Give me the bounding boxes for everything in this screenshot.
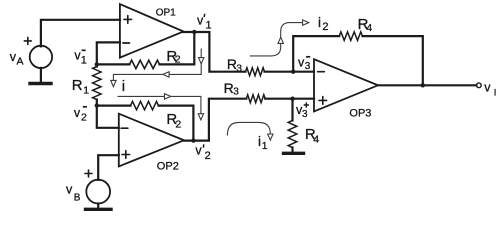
wire vB to OP2 non-inverting input <box>98 155 119 180</box>
svg-text:OP2: OP2 <box>157 161 179 173</box>
svg-text:R: R <box>72 77 83 94</box>
current annotation arrowhead (down at v'2) <box>198 114 203 120</box>
svg-text:2: 2 <box>205 150 211 162</box>
wire node v3- up to R4 feedback <box>293 36 339 72</box>
svg-text:OP1: OP1 <box>156 8 176 19</box>
wire OP3 output to terminal vI <box>378 84 476 86</box>
i2 annotation arrowhead (up) <box>278 37 283 43</box>
i2 annotation arrowhead (right) <box>303 20 309 25</box>
wire R4 to ground <box>291 148 293 152</box>
svg-text:2: 2 <box>322 21 328 33</box>
node v3+ junction dot <box>290 97 294 101</box>
svg-text:OP3: OP3 <box>349 107 371 119</box>
OP1 minus input sign <box>123 42 130 44</box>
OP2 plus input sign <box>122 151 130 159</box>
wire node v2- to OP2 inverting input <box>97 105 119 127</box>
svg-text:A: A <box>17 56 24 68</box>
svg-text:1: 1 <box>81 54 87 66</box>
ground (below vB) <box>86 208 112 211</box>
node v3- junction dot <box>291 70 295 74</box>
svg-text:v: v <box>74 106 81 120</box>
ground (below vA) <box>30 82 51 85</box>
svg-text:I: I <box>494 88 497 99</box>
current annotation: i2 S-curve <box>250 23 306 56</box>
current annotation arrowhead (right, above R2 bottom) <box>165 94 171 99</box>
wire node v1- to R2 (top) <box>97 63 130 65</box>
svg-text:v: v <box>484 81 491 95</box>
node v2- junction dot <box>95 103 99 107</box>
current annotation: i1 hook <box>227 122 270 135</box>
current annotation: line above R2 bottom toward v'2 <box>118 96 201 120</box>
svg-text:v: v <box>197 13 204 27</box>
wire OP1 inverting input to node v1- <box>97 42 120 63</box>
svg-text:B: B <box>74 192 81 203</box>
voltage source vA <box>30 46 52 68</box>
wire node v1- to R1 <box>96 64 98 66</box>
svg-text:i: i <box>258 134 261 149</box>
svg-text:1: 1 <box>83 84 89 96</box>
svg-text:4: 4 <box>313 134 319 146</box>
svg-text:v: v <box>195 144 202 158</box>
svg-text:2: 2 <box>81 111 87 123</box>
wire vB to ground <box>97 204 99 208</box>
OP1 plus input sign <box>124 16 132 24</box>
current annotation arrowhead (left, toward R1) <box>163 72 169 77</box>
resistor R4 (top feedback of OP3) <box>339 32 362 41</box>
wire R2 (top) to node v'1 <box>160 32 195 64</box>
svg-text:3: 3 <box>302 109 308 120</box>
plus sign of source vA <box>24 37 31 44</box>
op-amp OP1 <box>120 4 184 58</box>
svg-text:3: 3 <box>236 64 242 75</box>
svg-text:1: 1 <box>206 19 212 31</box>
resistor R2 (bottom feedback of OP2) <box>131 101 159 109</box>
svg-text:4: 4 <box>366 22 372 34</box>
plus sign of source vB <box>85 170 92 177</box>
OP3 minus input sign <box>318 71 325 73</box>
current annotation arrowhead (down at R1, current i) <box>111 80 116 86</box>
voltage source vB <box>86 180 110 204</box>
resistor R4 (grounded, right) <box>288 121 297 148</box>
i1 annotation arrowhead (down) <box>268 134 273 140</box>
current annotation: arrow down beside v'1 drop <box>113 49 201 87</box>
output terminal circle <box>476 83 481 88</box>
resistor R3 (top) <box>246 68 265 76</box>
svg-text:i: i <box>122 78 125 95</box>
svg-text:i: i <box>318 15 321 30</box>
wire R2 (bottom) to node v'2 <box>159 106 194 141</box>
svg-text:R: R <box>224 80 234 96</box>
wire vA to ground <box>40 68 42 82</box>
wire R3 (top) to node v3- and OP3 inverting input <box>265 71 315 73</box>
OP3 plus input sign <box>319 97 327 105</box>
wire OP2 output to node v'2 and riser to R3 (bottom) <box>184 99 246 141</box>
resistor R1 <box>93 67 101 100</box>
node v'1 junction dot <box>192 30 196 34</box>
node v1- junction dot <box>95 62 99 66</box>
wire R3 (bottom) to node v3+ and OP3 non-inverting input <box>265 98 314 100</box>
wire R1 to node v2- <box>96 100 98 106</box>
svg-text:2: 2 <box>175 119 181 131</box>
op-amp OP2 <box>119 114 184 167</box>
wire vA to OP1 non-inverting input <box>41 20 120 47</box>
svg-text:3: 3 <box>305 61 311 72</box>
svg-text:2: 2 <box>175 53 181 65</box>
svg-text:v: v <box>66 183 73 197</box>
OP2 minus input sign <box>121 127 128 129</box>
svg-text:3: 3 <box>233 87 239 98</box>
wire node v3+ to R4 (grounded) <box>291 99 293 121</box>
wire node v2- to R2 (bottom) <box>97 104 131 106</box>
svg-text:1: 1 <box>262 140 268 152</box>
wire OP1 output to v'1 and R3 drop <box>184 32 246 72</box>
resistor R3 (bottom) <box>246 95 265 103</box>
output node junction dot <box>421 83 425 87</box>
node v'2 junction dot <box>191 138 195 142</box>
resistor R2 (top feedback of OP1) <box>130 60 160 68</box>
ground (below R4) <box>284 152 304 155</box>
current annotation arrowhead (down, on v'1 drop) <box>199 58 204 64</box>
op-amp OP3 <box>314 59 378 111</box>
wire R4 (top) to output node <box>363 36 423 85</box>
